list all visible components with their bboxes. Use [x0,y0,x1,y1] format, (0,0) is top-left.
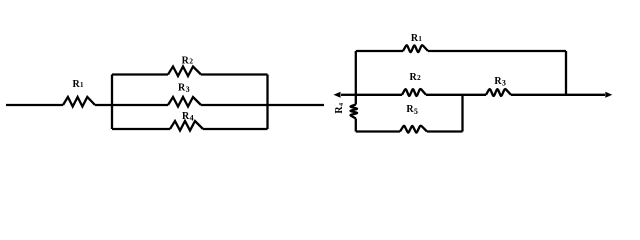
svg-text:R4: R4 [334,103,345,114]
svg-text:R3: R3 [494,76,506,88]
wire [112,104,168,106]
resistor R1 [403,33,428,52]
wire [95,104,112,106]
wire [266,75,268,130]
svg-text:R2: R2 [409,72,421,83]
wire [428,50,566,52]
svg-text:R2: R2 [182,56,194,67]
svg-text:R1: R1 [411,33,423,44]
wire [356,130,400,132]
wire [201,73,268,75]
wire [203,128,268,130]
wire [461,95,463,132]
terminal arrow right [566,92,612,98]
wire [355,119,357,132]
resistor R2 [168,56,201,77]
resistor R3 [486,76,511,96]
resistor R3 [168,83,201,107]
wire [356,50,403,52]
terminal arrow left [334,92,356,98]
resistor R5 [400,104,427,133]
wire [201,104,268,106]
wire [112,73,168,75]
wire [355,51,357,95]
wire [356,94,402,96]
wire [427,130,463,132]
wire [511,94,566,96]
svg-text:R5: R5 [406,104,418,116]
wire [112,128,170,130]
wire [355,95,357,105]
wire [111,75,113,130]
resistor R4 [334,103,357,118]
wire [426,94,463,96]
resistor R2 [402,72,426,96]
wire [268,104,325,106]
wire [6,104,63,106]
wire [463,94,487,96]
resistor R1 [63,79,95,107]
svg-text:R3: R3 [178,83,190,95]
svg-text:R4: R4 [182,111,194,123]
wire [565,51,567,95]
resistor R4 [170,111,203,131]
svg-text:R1: R1 [72,79,84,90]
